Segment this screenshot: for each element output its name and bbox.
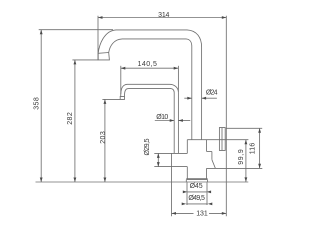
handle box inner vertical 1 [221, 128, 223, 151]
spout outer wall (tall spout) [98, 30, 201, 140]
base flange left [185, 180, 187, 182]
svg-text:Ø10: Ø10 [156, 114, 168, 121]
svg-text:358: 358 [33, 97, 40, 110]
handle box [219, 128, 225, 151]
dim 140,5 right extension [177, 66, 179, 92]
dim 358 line [40, 30, 42, 182]
arrow O29,5 down [157, 162, 160, 167]
svg-text:Ø24: Ø24 [206, 90, 218, 97]
dim O45 line [187, 191, 206, 193]
arrow 358 up [40, 30, 43, 35]
small spout inner wall [125, 89, 175, 154]
dim 282 extension [72, 59, 98, 61]
arrow O49,5 right [208, 203, 213, 206]
arrow 99,9 down [245, 177, 248, 182]
dim 282 line [74, 60, 76, 182]
svg-text:282: 282 [67, 112, 74, 125]
svg-text:131: 131 [196, 210, 208, 217]
arrow 282 up [74, 60, 77, 65]
dim 131 line left part [172, 212, 194, 214]
dim 314 right extension going down through handle [225, 16, 227, 217]
arrow 140,5 right [174, 67, 179, 70]
dim 140,5 left extension [120, 66, 122, 94]
left arm bottom edge with extension [154, 166, 187, 168]
right arm joint vertical [211, 152, 213, 160]
dim 116 top extension [226, 127, 262, 129]
base collar upper line [186, 178, 207, 180]
dim 99,9 line [245, 140, 247, 182]
arrow 203 down [104, 178, 107, 183]
dim 131 line right part [209, 212, 226, 214]
arrow O10 left pointing right [170, 119, 175, 122]
right arm bottom edge with extension for 116 [207, 167, 263, 169]
dim 140,5 line [121, 67, 178, 69]
svg-text:Ø29,5: Ø29,5 [144, 138, 151, 155]
left arm top edge with extension [154, 152, 187, 154]
right arm diagonal flare [212, 160, 216, 169]
spout inner wall (tall spout) [109, 39, 192, 140]
dim O24 left segment [184, 97, 192, 99]
aerator of small spout [120, 96, 124, 99]
dim 116 line [259, 128, 261, 168]
arrow O49,5 left [182, 203, 187, 206]
dim O45/O49,5 right extension [206, 182, 208, 205]
dim 203 extension [102, 98, 120, 100]
arrow 314 right [222, 16, 227, 19]
dim O10 right segment [178, 120, 190, 122]
arrow 116 up [258, 128, 261, 133]
small spout outer wall [121, 84, 179, 153]
arrow O45 left [183, 191, 188, 194]
arrow 140,5 left [121, 67, 126, 70]
arrow O29,5 up [157, 153, 160, 158]
dim 131 left extension (below arm tip) [171, 167, 173, 217]
svg-text:99,9: 99,9 [238, 149, 245, 165]
base flange right [207, 180, 209, 182]
arrow O24 left pointing right [187, 97, 192, 100]
dim O29,5 line [157, 153, 159, 166]
arrow 131 left [172, 212, 177, 215]
svg-text:140,5: 140,5 [137, 61, 157, 68]
arrow 131 right [222, 212, 227, 215]
body top edge [187, 139, 219, 141]
body right edge lower [206, 168, 208, 178]
arrow 116 down [258, 164, 261, 169]
svg-text:116: 116 [249, 143, 256, 155]
dim 99,9 extension [219, 139, 248, 141]
arrow 358 down [40, 178, 43, 183]
svg-text:203: 203 [100, 131, 107, 144]
dim O49,5 line [186, 203, 208, 205]
arrow 99,9 up [245, 140, 248, 145]
base collar lower line [186, 179, 207, 181]
arrow 203 up [104, 99, 107, 104]
svg-text:Ø49,5: Ø49,5 [188, 195, 205, 202]
arrow O24 right pointing left [202, 97, 207, 100]
aerator of tall spout [98, 53, 109, 60]
dim 358 extension top [39, 29, 113, 31]
left arm tip [171, 153, 173, 166]
svg-text:314: 314 [158, 12, 169, 19]
arrow O45 right [207, 191, 212, 194]
dim 314 left extension [97, 16, 99, 60]
dim 314 line [98, 17, 226, 19]
dim O10 left segment [155, 120, 174, 122]
dim 203 line [104, 99, 106, 182]
svg-text:Ø45: Ø45 [190, 183, 203, 190]
body right edge upper [206, 140, 208, 152]
baseline counter surface [36, 181, 249, 183]
dim O24 right segment [202, 97, 217, 99]
body left edge lower [186, 167, 188, 179]
arrow 282 down [74, 178, 77, 183]
arrow O10 right pointing left [178, 119, 183, 122]
body left edge upper [186, 140, 188, 154]
arrow 314 left [98, 16, 103, 19]
right arm top edge [207, 151, 212, 153]
dim O45/O49,5 left extension [186, 182, 188, 205]
